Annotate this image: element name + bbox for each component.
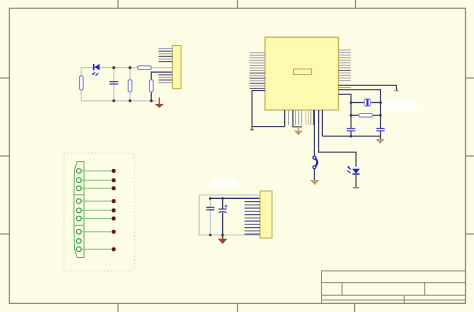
capacitor C5 polarized	[219, 205, 228, 213]
capacitor C2	[347, 129, 355, 131]
capacitor C3	[376, 129, 384, 131]
IC U1 body	[265, 37, 339, 110]
ground GND2 (under U1)	[294, 127, 303, 136]
J3 wires to net dots	[81, 171, 112, 249]
ground GND1	[155, 98, 164, 108]
wire loop circuit3	[199, 195, 260, 235]
net dots (maroon)	[112, 169, 115, 251]
wire crystal bottom rail	[322, 135, 380, 137]
resistor R3	[138, 66, 152, 70]
wire U1 net C left rail	[339, 94, 352, 136]
crystal Y1	[364, 98, 371, 106]
wire S1 to ground	[313, 169, 315, 180]
ground GND5	[218, 236, 228, 244]
J2 pins	[245, 202, 261, 235]
switch S1	[313, 156, 317, 169]
wire D2 to power	[355, 174, 357, 188]
connector J1	[172, 46, 181, 89]
U1 inner label box	[294, 69, 312, 75]
resistor R4	[150, 80, 154, 92]
wire crystal row	[351, 102, 381, 104]
ground GND3 (crystal)	[376, 139, 385, 144]
wire C5 to ground	[222, 198, 224, 236]
wire U1 pin to bottom rail	[321, 110, 323, 136]
capacitor C4	[206, 207, 214, 209]
LED D1	[92, 64, 99, 76]
power stub at W1 corner	[250, 127, 254, 130]
U1 bottom pins	[285, 110, 323, 125]
wire U1 ground net	[293, 110, 302, 127]
power bar below D2	[353, 187, 359, 189]
wire R4 to J1	[151, 72, 172, 80]
resistor R5	[359, 114, 373, 118]
junction dots crystal	[350, 101, 382, 137]
ground GND4 (under S1)	[310, 180, 319, 185]
wire resistor row	[351, 114, 381, 116]
U1 left pins	[250, 53, 266, 89]
wire net loop circuit1	[81, 68, 172, 101]
title block	[322, 271, 466, 304]
wire U1 to LED D2	[319, 110, 356, 167]
junction dots circuit1	[112, 66, 152, 102]
resistor R2	[128, 80, 132, 92]
white label blob right of crystal	[383, 100, 418, 111]
wire U1 net B right rail	[339, 90, 381, 140]
wire U1 to switch S1	[313, 110, 315, 156]
resistor R1	[80, 76, 84, 90]
wire U1 net A (top right)	[339, 85, 397, 90]
J1 pins	[159, 49, 173, 83]
dashed selection box around J3	[64, 153, 135, 271]
white label blob above J2	[210, 179, 238, 187]
junction dots circuit3	[209, 197, 224, 236]
wire blue net circuit3	[210, 197, 260, 199]
J3 pin rings	[76, 169, 81, 252]
wire end tick net A	[394, 90, 399, 92]
U1 right pins	[339, 50, 351, 88]
wire U1 pin to bottom (net W1)	[252, 91, 285, 127]
connector J2	[260, 191, 272, 238]
capacitor C1	[109, 82, 118, 84]
connector J3 body	[74, 162, 84, 258]
wire R4 bottom lead	[150, 92, 152, 101]
LED D2	[347, 167, 360, 175]
